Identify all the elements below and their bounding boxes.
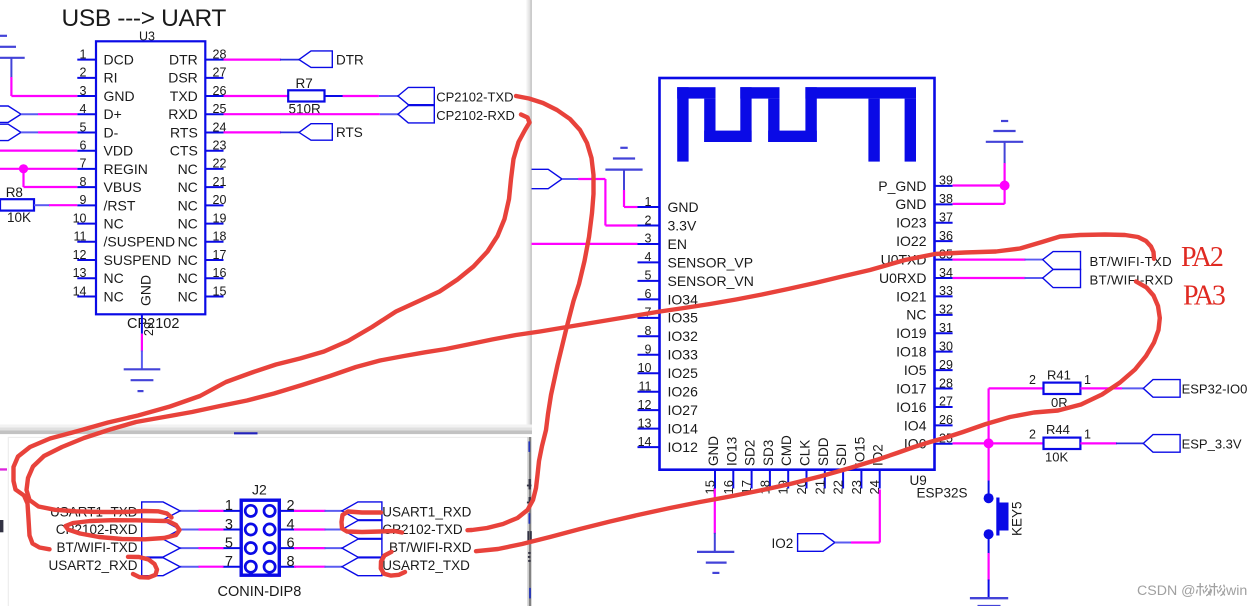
svg-text:GND: GND (138, 275, 154, 306)
J2 pin 3 stub and number (223, 529, 242, 531)
svg-text:6: 6 (80, 139, 87, 153)
svg-text:6: 6 (287, 535, 295, 551)
svg-text:RTS: RTS (336, 125, 363, 140)
wire U9 pin34 U0RXD to port (953, 277, 1026, 279)
port CP2102-TXD (398, 87, 434, 104)
svg-text:2: 2 (1029, 427, 1036, 441)
U9 pins 15-24 bottom (stubs, numbers, names) (714, 470, 716, 489)
svg-text:3: 3 (80, 84, 87, 98)
wire KEY5 to ground (988, 539, 990, 555)
svg-text:TXD: TXD (170, 88, 198, 104)
svg-text:38: 38 (939, 192, 953, 206)
port CP2102-TXD (right) (342, 521, 382, 539)
ground symbol top-left (partial) (0, 57, 25, 59)
svg-text:IO32: IO32 (668, 328, 699, 344)
svg-text:RI: RI (104, 70, 118, 86)
wire R41 to port ESP32-IO0 (1080, 387, 1122, 389)
svg-text:27: 27 (213, 66, 227, 80)
svg-text:RTS: RTS (170, 124, 198, 140)
wire R7 to port CP2102-TXD (325, 95, 344, 97)
connector arrow D+ (cut at edge) (0, 106, 21, 122)
svg-text:IO13: IO13 (724, 437, 739, 466)
wire J2 pin 4 to port CP2102-TXD (294, 528, 326, 530)
svg-text:17: 17 (213, 248, 227, 262)
wire U9 pin25 IO0 to R44 (953, 442, 1044, 444)
svg-text:IO25: IO25 (668, 365, 699, 381)
svg-text:23: 23 (849, 480, 864, 494)
svg-text:16: 16 (721, 480, 736, 494)
svg-text:12: 12 (73, 248, 87, 262)
wire D- to U3 pin5 (38, 131, 77, 133)
svg-text:NC: NC (178, 197, 198, 213)
svg-text:4: 4 (645, 250, 652, 264)
connector arrow D- (cut at edge) (0, 124, 21, 140)
svg-text:18: 18 (213, 230, 227, 244)
port BT/WIFI-RXD (ESP32 side) (1043, 269, 1081, 287)
svg-text:R41: R41 (1047, 368, 1071, 383)
svg-text:R44: R44 (1046, 422, 1070, 437)
svg-text:GND: GND (104, 88, 135, 104)
port DTR (299, 51, 332, 68)
svg-text:5: 5 (225, 535, 233, 551)
svg-text:SD3: SD3 (761, 440, 776, 466)
svg-text:NC: NC (178, 234, 198, 250)
wire 3.3V to U9 pin2 (578, 178, 605, 180)
J2 pin 2 stub and number (279, 510, 296, 512)
svg-text:13: 13 (638, 416, 652, 430)
wire IO0 node down to KEY5 (987, 443, 989, 480)
U9 PCB antenna meander (677, 87, 688, 161)
svg-text:12: 12 (638, 398, 652, 412)
svg-text:32: 32 (939, 303, 953, 317)
svg-text:5: 5 (80, 120, 87, 134)
svg-text:29: 29 (939, 358, 953, 372)
svg-text:31: 31 (939, 321, 953, 335)
wire U9 pin39 P_GND (953, 184, 1005, 186)
svg-text:14: 14 (73, 284, 87, 298)
svg-text:8: 8 (287, 554, 295, 570)
port CP2102-RXD (398, 106, 434, 123)
svg-text:SDI: SDI (834, 443, 849, 466)
wire port USART1_TXD to J2 pin 1 (180, 510, 199, 512)
switch KEY5 (984, 493, 994, 503)
svg-text:10: 10 (73, 211, 87, 225)
U3 pins 28-15 right (stubs, numbers, names) (205, 59, 223, 61)
svg-text:ESP32S: ESP32S (917, 486, 968, 501)
svg-text:GND: GND (668, 199, 699, 215)
svg-text:IO16: IO16 (896, 399, 927, 415)
J2 pin 6 stub and number (279, 547, 296, 549)
svg-text:7: 7 (80, 157, 87, 171)
svg-text:VDD: VDD (104, 143, 134, 159)
svg-text:CONIN-DIP8: CONIN-DIP8 (218, 584, 302, 600)
svg-text:IO12: IO12 (668, 439, 699, 455)
svg-text:IO19: IO19 (896, 325, 927, 341)
svg-text:34: 34 (939, 266, 953, 280)
svg-text:2: 2 (287, 498, 295, 514)
svg-text:6: 6 (645, 287, 652, 301)
J2 pin 8 stub and number (279, 566, 296, 568)
wire U3 pin24 to RTS port (224, 131, 282, 133)
svg-text:1: 1 (1084, 427, 1091, 441)
svg-text:win: win (1225, 583, 1247, 599)
svg-text:SDD: SDD (816, 437, 831, 466)
svg-text:USART2_TXD: USART2_TXD (382, 558, 470, 573)
svg-text:CP2102-RXD: CP2102-RXD (436, 108, 515, 123)
wire port USART2_RXD to J2 pin 7 (180, 566, 199, 568)
svg-text:DSR: DSR (168, 70, 198, 86)
svg-text:NC: NC (178, 179, 198, 195)
wire R44 to port ESP_3.3V (1080, 442, 1117, 444)
svg-text:CTS: CTS (170, 143, 198, 159)
svg-text:3.3V: 3.3V (668, 217, 697, 233)
svg-text:28: 28 (939, 376, 953, 390)
svg-text:14: 14 (638, 435, 652, 449)
svg-text:NC: NC (104, 288, 124, 304)
ground symbol below U3 (124, 368, 161, 370)
svg-text:ESP32-IO0: ESP32-IO0 (1182, 381, 1248, 396)
red annotation: hook at J2 USART2_TXD (381, 552, 405, 576)
svg-text:RXD: RXD (168, 106, 198, 122)
red annotation: ESP32 BT/WIFI-TXD PA2 loop to J2 USART1_TXD (left) (27, 235, 1155, 518)
svg-text:22: 22 (831, 480, 846, 494)
wire node to R41 pin2 (989, 387, 1044, 389)
wire U3 pin26 TXD to R7 (224, 95, 289, 97)
ground symbol top-right (986, 141, 1023, 143)
svg-text:33: 33 (939, 284, 953, 298)
svg-text:10K: 10K (1045, 450, 1068, 465)
svg-text:9: 9 (645, 343, 652, 357)
svg-text:NC: NC (906, 307, 926, 323)
red annotation: hook at J2 USART1_RXD / CP2102-TXD (342, 512, 403, 533)
port ESP32-IO0 (1143, 380, 1180, 398)
svg-text:ESP_3.3V: ESP_3.3V (1182, 436, 1242, 451)
wire ground to U3 pin3 GND (10, 58, 12, 78)
red annotation: ESP32 BT/WIFI-RXD PA3 sweep to J2 BT/WIFI-RXD (right) (476, 282, 1160, 552)
port USART1_RXD (right) (342, 502, 382, 520)
junction node P_GND/GND (1000, 181, 1010, 191)
svg-text:29: 29 (142, 322, 156, 336)
svg-text:15: 15 (213, 284, 227, 298)
U9 pins 39-25 right (stubs, numbers, names) (935, 185, 953, 187)
svg-text:BT/WIFI-RXD: BT/WIFI-RXD (1090, 272, 1174, 287)
wire port CP2102-RXD to J2 pin 3 (180, 529, 199, 531)
port ESP_3.3V (1143, 435, 1180, 453)
port CP2102-RXD (left) (142, 521, 180, 539)
svg-text:13: 13 (73, 266, 87, 280)
svg-text:DTR: DTR (336, 52, 364, 67)
wire R41 branch down to IO0 node (987, 388, 989, 443)
resistor R44 body (1044, 438, 1081, 449)
svg-text:NC: NC (178, 288, 198, 304)
svg-text:J2: J2 (252, 482, 267, 498)
red annotation: CP2102-RXD to J2 BT/WIFI-TXD (left) (14, 115, 530, 550)
svg-text:D+: D+ (104, 106, 122, 122)
svg-text:EN: EN (668, 236, 687, 252)
port BT/WIFI-TXD (ESP32 side) (1043, 252, 1081, 270)
IC U3 body (96, 41, 205, 314)
svg-text:GND: GND (706, 436, 721, 466)
svg-text:9: 9 (80, 193, 87, 207)
svg-text:DTR: DTR (169, 52, 198, 68)
svg-text:/SUSPEND: /SUSPEND (104, 234, 176, 250)
svg-text:36: 36 (939, 229, 953, 243)
J2 pin 1 stub and number (223, 510, 242, 512)
wire U9 pin35 U0TXD to port (953, 259, 1026, 261)
svg-text:/RST: /RST (104, 197, 136, 213)
wire VDD to U3 pin6 (0, 150, 77, 152)
svg-text:PA2: PA2 (1181, 242, 1223, 273)
svg-text:8: 8 (645, 324, 652, 338)
svg-text:1: 1 (225, 498, 233, 514)
svg-text:5: 5 (645, 269, 652, 283)
svg-text:3: 3 (645, 232, 652, 246)
port BT/WIFI-TXD (left) (142, 539, 180, 557)
svg-text:30: 30 (939, 339, 953, 353)
J2 pin 4 stub and number (279, 529, 296, 531)
svg-text:IO17: IO17 (896, 380, 927, 396)
wire ground to P_GND (1004, 142, 1006, 164)
svg-text:NC: NC (178, 215, 198, 231)
wire EN to U9 pin3 (from seam) (532, 243, 638, 245)
svg-text:USART1_RXD: USART1_RXD (382, 504, 471, 519)
svg-text:NC: NC (178, 252, 198, 268)
svg-text:BT/WIFI-RXD: BT/WIFI-RXD (389, 540, 472, 555)
junction node REGIN/VBUS (19, 164, 28, 173)
svg-text:USART2_RXD: USART2_RXD (48, 558, 137, 573)
svg-text:2: 2 (645, 213, 652, 227)
connector arrow into 3.3V net (cut at seam) (532, 169, 563, 188)
port USART2_TXD (right) (342, 558, 382, 576)
port RTS (299, 124, 332, 141)
cut glyph fragment at left edge (0, 520, 3, 532)
svg-text:NC: NC (178, 161, 198, 177)
svg-text:2: 2 (1029, 373, 1036, 387)
svg-text:IO4: IO4 (904, 417, 927, 433)
wire junction to U3 pin8 VBUS (22, 169, 24, 187)
svg-text:37: 37 (939, 211, 953, 225)
svg-text:GND: GND (895, 196, 926, 212)
svg-text:SUSPEND: SUSPEND (104, 252, 172, 268)
ground symbol above U9 pin1 (605, 169, 642, 171)
wire ground to U9 pin1 GND (623, 170, 625, 191)
svg-text:23: 23 (213, 139, 227, 153)
svg-text:SD2: SD2 (743, 440, 758, 466)
wire REGIN to U3 pin7 (0, 168, 77, 170)
svg-text:19: 19 (213, 211, 227, 225)
red annotation: hook at J2 USART2_RXD (left) (128, 557, 157, 578)
svg-text:21: 21 (213, 175, 227, 189)
wire J2 pin 2 to port USART1_RXD (294, 510, 326, 512)
svg-text:IO14: IO14 (668, 421, 699, 437)
svg-text:3: 3 (225, 517, 233, 533)
svg-text:26: 26 (939, 413, 953, 427)
svg-text:BT/WIFI-TXD: BT/WIFI-TXD (57, 540, 138, 555)
wire J2 pin 6 to port BT/WIFI-RXD (294, 547, 326, 549)
svg-text:VBUS: VBUS (104, 179, 142, 195)
svg-text:IO2: IO2 (772, 536, 794, 551)
svg-text:REGIN: REGIN (104, 161, 148, 177)
svg-text:7: 7 (225, 554, 233, 570)
wire D+ to U3 pin4 (38, 113, 77, 115)
svg-text:CSDN @: CSDN @ (1137, 583, 1196, 599)
resistor R7 body (288, 90, 324, 101)
J2 pin holes (245, 505, 256, 516)
cut glyph fragments at right seam (528, 441, 530, 452)
svg-text:IO26: IO26 (668, 384, 699, 400)
wire J2 pin 8 to port USART2_TXD (294, 566, 326, 568)
svg-text:10K: 10K (7, 210, 31, 225)
J2 pin 7 stub and number (223, 566, 242, 568)
svg-text:20: 20 (213, 193, 227, 207)
svg-text:IO22: IO22 (896, 233, 927, 249)
svg-text:CP2102-TXD: CP2102-TXD (436, 90, 513, 105)
svg-text:22: 22 (213, 157, 227, 171)
svg-text:CLK: CLK (798, 440, 813, 466)
port USART2_RXD (left) (142, 558, 180, 576)
svg-text:NC: NC (104, 270, 124, 286)
resistor R41 body (1044, 383, 1081, 394)
svg-text:16: 16 (213, 266, 227, 280)
svg-text:4: 4 (287, 517, 295, 533)
svg-text:4: 4 (80, 102, 87, 116)
svg-text:PA3: PA3 (1183, 281, 1225, 312)
svg-text:CMD: CMD (779, 435, 794, 466)
wire port BT/WIFI-TXD to J2 pin 5 (180, 547, 199, 549)
svg-text:10: 10 (638, 361, 652, 375)
svg-text:P_GND: P_GND (878, 178, 926, 194)
wire IO2 port to U9 pin24 (835, 542, 852, 544)
svg-text:BT/WIFI-TXD: BT/WIFI-TXD (1090, 254, 1172, 269)
svg-text:27: 27 (939, 395, 953, 409)
svg-text:IO21: IO21 (896, 288, 927, 304)
ground symbol below U9 pin15 (697, 551, 734, 553)
ground symbol below KEY5 (970, 597, 1008, 599)
svg-text:IO27: IO27 (668, 402, 699, 418)
svg-text:1: 1 (1084, 373, 1091, 387)
wire U3 pin29 to ground (141, 334, 143, 352)
wire U9 pin15 GND down (714, 489, 716, 534)
svg-text:R7: R7 (296, 76, 313, 91)
wire junction to U9 pin38 GND (1003, 186, 1005, 204)
svg-text:1: 1 (645, 195, 652, 209)
border seam between stitched screenshots (527, 0, 529, 432)
port USART1_TXD (left) (142, 502, 180, 520)
svg-text:IO18: IO18 (896, 344, 927, 360)
svg-text:8: 8 (80, 175, 87, 189)
svg-text:2: 2 (80, 66, 87, 80)
stray wire fragment above J2 (234, 432, 258, 434)
svg-text:USB ---> UART: USB ---> UART (62, 5, 227, 32)
svg-text:R8: R8 (6, 185, 23, 200)
svg-text:DCD: DCD (104, 52, 134, 68)
svg-text:IO23: IO23 (896, 215, 927, 231)
wire R8 to U3 pin9 /RST (34, 204, 50, 206)
svg-text:D-: D- (104, 124, 119, 140)
U3 pins 1-14 left (stubs, numbers, names), (77, 59, 96, 61)
svg-text:IO35: IO35 (668, 310, 699, 326)
svg-text:U0RXD: U0RXD (879, 270, 926, 286)
connector J2 body (241, 500, 279, 575)
U9 pins 1-14 left (stubs, numbers, names) (638, 206, 660, 208)
svg-text:1: 1 (80, 47, 87, 61)
svg-text:11: 11 (639, 380, 652, 394)
svg-text:SENSOR_VN: SENSOR_VN (668, 273, 754, 289)
svg-text:11: 11 (74, 230, 87, 244)
svg-text:KEY5: KEY5 (1010, 501, 1025, 536)
IC U9 ESP32S body (660, 78, 935, 470)
svg-text:NC: NC (178, 270, 198, 286)
svg-text:21: 21 (812, 480, 827, 494)
svg-text:IO5: IO5 (904, 362, 927, 378)
port IO2 (798, 534, 835, 552)
wire U3 pin25 RXD to port (224, 113, 380, 115)
svg-text:IO33: IO33 (668, 347, 699, 363)
resistor R8 body (cut at edge) (0, 199, 34, 210)
J2 pin 5 stub and number (223, 547, 242, 549)
red annotation: loop at J2 CP2102-RXD (left) (66, 520, 180, 539)
svg-text:NC: NC (104, 215, 124, 231)
svg-text:39: 39 (939, 174, 953, 188)
wire U3 pin28 to DTR port (224, 58, 282, 60)
red annotation: CP2102-TXD to J2 CP2102-TXD (right) (468, 96, 594, 530)
port BT/WIFI-RXD (right) (342, 539, 382, 557)
junction node IO0/KEY5 (984, 438, 994, 448)
svg-text:SENSOR_VP: SENSOR_VP (668, 254, 754, 270)
